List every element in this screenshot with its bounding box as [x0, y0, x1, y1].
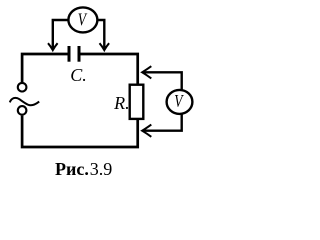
svg-text:V: V [78, 11, 88, 30]
svg-text:R.: R. [113, 93, 130, 113]
svg-text:V: V [174, 92, 184, 111]
svg-text:C.: C. [70, 65, 87, 85]
svg-text:Рис.: Рис. [55, 159, 89, 179]
svg-text:3.9: 3.9 [90, 159, 113, 179]
